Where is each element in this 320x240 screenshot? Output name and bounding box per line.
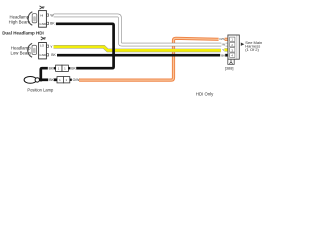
connector latch bracket below harness connector — [228, 59, 234, 64]
svg-text:High Beam: High Beam — [9, 19, 31, 24]
connector high beam (2P) — [39, 11, 47, 28]
label Headlamp Low Beam — [11, 45, 32, 55]
label Headlamp High Beam — [9, 14, 31, 24]
wire BK black: high beam GND down to ground junction — [56, 24, 114, 55]
wire Y yellow: low beam LO to pin 3 of harness connector — [54, 47, 221, 51]
ground junction node — [112, 53, 116, 57]
connector inner latch line — [236, 35, 238, 58]
connector low beam (2P) — [39, 43, 47, 59]
wire W white: high beam HI to pin 2 of harness connector — [54, 15, 222, 44]
svg-text:W: W — [222, 43, 225, 47]
svg-text:BK: BK — [49, 67, 54, 71]
wire BK stub into pin 4 — [225, 54, 228, 57]
svg-text:BK: BK — [50, 22, 55, 26]
svg-text:BK: BK — [49, 78, 54, 82]
svg-text:BK: BK — [51, 53, 56, 57]
svg-text:Dual Headlamp HDI: Dual Headlamp HDI — [2, 31, 44, 36]
wire O/W stub into pin 1 — [225, 38, 229, 41]
connector clip glyph above high beam connector — [40, 6, 45, 9]
wire BK black: position lamp to splice row 2 — [40, 78, 48, 81]
wire BK black: ground junction down to position lamp splice row — [76, 55, 113, 68]
svg-text:HDI Only: HDI Only — [196, 91, 214, 96]
svg-text:LO: LO — [40, 43, 45, 47]
label See Main Harness (1 Of 2) — [245, 40, 262, 52]
pin HI — [40, 13, 48, 17]
svg-text:O/W: O/W — [219, 37, 225, 41]
junction node at lamp branch — [39, 78, 42, 81]
svg-text:Y: Y — [50, 45, 53, 49]
connector clip glyph above low beam connector — [41, 37, 46, 40]
pin LO — [40, 43, 49, 47]
pin GND — [39, 53, 48, 57]
headlamp low beam bulb — [32, 45, 37, 54]
headlamp high beam bulb — [32, 14, 37, 23]
pin 4 — [230, 53, 235, 58]
wire W stub into pin 2 — [226, 43, 229, 47]
wire BK black: low beam GND to pin 4 of harness connector (ground bus) — [57, 54, 220, 57]
svg-text:BK: BK — [71, 67, 76, 71]
wire Y stub into pin 3 — [224, 48, 228, 51]
inline connector pair (position lamp ground) — [54, 65, 71, 71]
pin 1 — [230, 37, 235, 42]
svg-text:Position Lamp: Position Lamp — [27, 87, 54, 92]
pin 3 — [230, 48, 235, 53]
inline connector pair (position lamp feed) — [55, 77, 72, 83]
headlamp high beam reflector arc — [28, 12, 32, 26]
connector main harness (4P) — [228, 35, 239, 59]
svg-text:BK: BK — [221, 53, 225, 57]
arrow to main harness — [241, 43, 245, 46]
position lamp bulb — [24, 77, 39, 84]
svg-text:GND: GND — [39, 53, 47, 57]
pin GND — [39, 22, 48, 26]
svg-text:O/W: O/W — [73, 78, 81, 82]
wire BK stub into splice row 2 — [54, 78, 57, 81]
svg-text:[388]: [388] — [225, 65, 234, 70]
pin 2 — [230, 42, 235, 47]
headlamp low beam reflector arc — [28, 43, 32, 57]
svg-text:(1 Of 2): (1 Of 2) — [245, 47, 259, 52]
svg-text:GND: GND — [39, 22, 47, 26]
wire O/W orange: position lamp feed to pin 1 of harness connector — [79, 38, 219, 80]
svg-text:Y: Y — [222, 48, 224, 52]
svg-text:HI: HI — [40, 13, 43, 17]
wire BK black: row1 left stub from lamp branch — [41, 68, 48, 80]
